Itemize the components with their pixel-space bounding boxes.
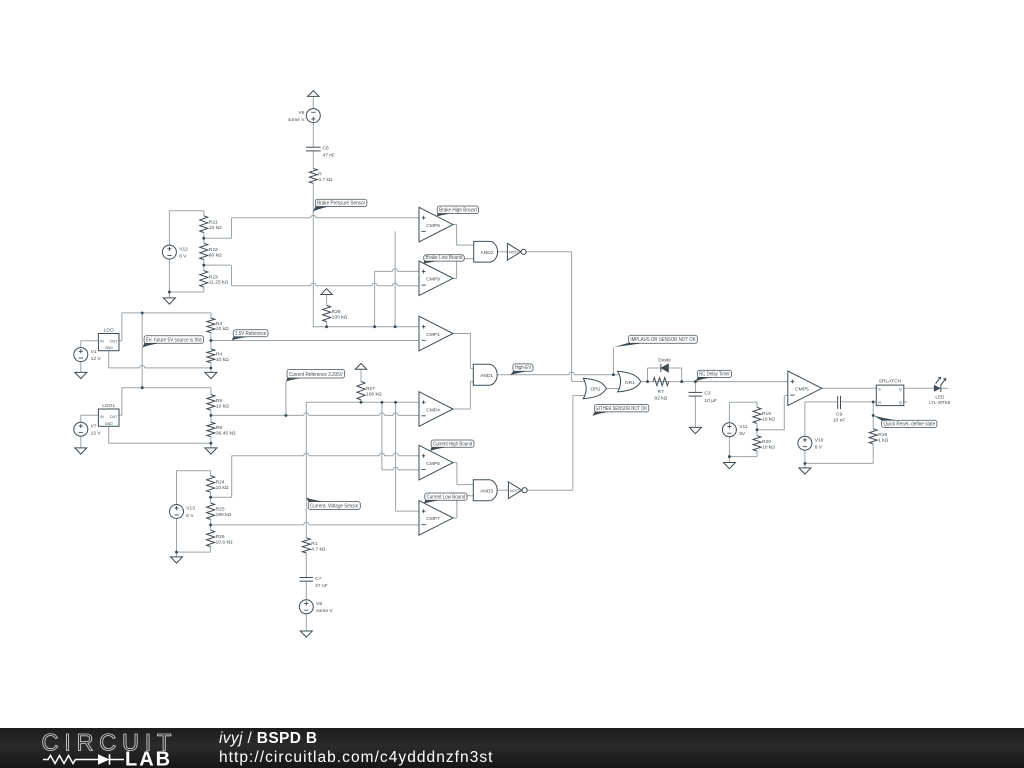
wire AND1 output High-EV bbox=[498, 374, 619, 376]
junction at 873.2,415.4 bbox=[872, 414, 875, 417]
wire hop at 313.3,217.8 bbox=[311, 215, 316, 219]
svg-text:12 V: 12 V bbox=[91, 356, 102, 362]
wire R1 to C7 bbox=[305, 553, 307, 578]
capacitor C3 bbox=[689, 391, 717, 404]
junction at 647.5,381.6 bbox=[646, 380, 649, 383]
svg-text:CMP5: CMP5 bbox=[795, 387, 809, 393]
resistor R3 bbox=[207, 318, 229, 333]
wire R26 bottom lead bbox=[210, 547, 212, 553]
svg-text:190 kΩ: 190 kΩ bbox=[216, 512, 232, 518]
node flag Brake High Bound bbox=[437, 206, 479, 217]
junction at 681.7,381.6 bbox=[680, 380, 683, 383]
svg-text:C9: C9 bbox=[836, 411, 843, 417]
svg-text:R: R bbox=[318, 171, 322, 177]
resistor R24 bbox=[207, 476, 229, 493]
wire diode branch left bbox=[647, 368, 649, 382]
wire NOT2 output bbox=[528, 489, 573, 491]
svg-text:LTL-30TEE: LTL-30TEE bbox=[929, 400, 951, 405]
comparator CMP4 bbox=[419, 392, 453, 427]
wire R9 bottom lead bbox=[210, 437, 212, 448]
wire to AND2 input A bbox=[457, 244, 474, 246]
svg-text:NOT1: NOT1 bbox=[509, 250, 519, 254]
inverter NOT2 bbox=[508, 482, 527, 499]
svg-text:LDO: LDO bbox=[104, 327, 114, 333]
resistor R22 bbox=[200, 243, 222, 259]
junction at 203.8,265.1 bbox=[202, 264, 205, 267]
svg-text:R4: R4 bbox=[216, 351, 223, 357]
wire CMP4 output bbox=[453, 408, 470, 410]
svg-text:36.45 kΩ: 36.45 kΩ bbox=[216, 430, 236, 436]
svg-text:CMP1: CMP1 bbox=[426, 332, 440, 338]
wire NOT1 output bbox=[527, 251, 572, 253]
wire R24 top lead bbox=[210, 471, 212, 476]
svg-text:Diode: Diode bbox=[658, 357, 671, 363]
wire R4 bottom lead bbox=[210, 363, 212, 373]
wire V10 bottom lead bbox=[804, 450, 806, 468]
svg-text:100 kΩ: 100 kΩ bbox=[332, 314, 348, 320]
wire R19 top lead bbox=[756, 402, 758, 407]
wire NOT1 to OR2 drop bbox=[571, 252, 573, 382]
junction at 729.4,456.6 bbox=[728, 455, 731, 458]
voltage source V12 bbox=[162, 245, 188, 259]
junction at 176.5,552.1 bbox=[175, 551, 178, 554]
wire flag to R27 bbox=[360, 369, 362, 381]
diode D bbox=[658, 357, 671, 372]
junction at 395.1,326.7 bbox=[394, 325, 397, 328]
svg-text:82 kΩ: 82 kΩ bbox=[654, 395, 667, 401]
resistor R7 bbox=[653, 378, 669, 402]
voltage source V10 bbox=[798, 436, 824, 450]
voltage source V11 bbox=[722, 423, 747, 437]
wire R3-R4 link bbox=[210, 333, 212, 349]
svg-text:V8: V8 bbox=[316, 601, 322, 607]
svg-text:LDO1: LDO1 bbox=[102, 403, 115, 409]
wire R8 top lead bbox=[210, 388, 212, 395]
svg-text:10 kΩ: 10 kΩ bbox=[216, 326, 229, 332]
svg-text:High-EV: High-EV bbox=[515, 365, 532, 371]
svg-text:CMP7: CMP7 bbox=[426, 516, 440, 522]
svg-text:OUT: OUT bbox=[110, 415, 118, 419]
junction at 210.9,443.2 bbox=[209, 442, 212, 445]
svg-text:IN: IN bbox=[100, 415, 104, 419]
and gate AND1 bbox=[473, 364, 497, 385]
wire R22-R23 tap bbox=[204, 264, 232, 266]
wire OR1 output to R7 bbox=[641, 381, 696, 383]
svg-text:some V: some V bbox=[316, 608, 333, 614]
svg-text:Current Low Bound: Current Low Bound bbox=[427, 494, 466, 500]
wire SRLATCH Q to LED bbox=[904, 387, 934, 389]
power flag top bbox=[308, 91, 319, 97]
wire OR2 to OR1 bbox=[606, 388, 622, 390]
wire CMP4 out rise bbox=[469, 382, 471, 409]
svg-text:R20: R20 bbox=[762, 439, 771, 445]
capacitor C6 bbox=[306, 145, 335, 158]
sr latch SRLATCH bbox=[876, 379, 904, 406]
wire V6 to C6 bbox=[312, 123, 314, 148]
and gate AND2 bbox=[474, 241, 498, 262]
wire LDO GND pin bbox=[108, 351, 110, 368]
resistor R26 bbox=[207, 530, 233, 546]
wire R19-R20 link bbox=[756, 423, 758, 435]
capacitor C9 bbox=[833, 396, 846, 424]
resistor R4 bbox=[207, 349, 229, 363]
wire sensor to CMP9+ bbox=[375, 270, 419, 272]
svg-text:Current Reference 3.205V: Current Reference 3.205V bbox=[289, 372, 344, 378]
wire current sensor rail bbox=[306, 401, 419, 403]
node flag Current Voltage Sensor bbox=[306, 497, 360, 509]
junction at 169.4,292 bbox=[168, 291, 171, 294]
svg-text:OUT: OUT bbox=[110, 340, 118, 344]
svg-text:2.5V Reference: 2.5V Reference bbox=[235, 331, 266, 337]
wire V13 bottom bbox=[177, 551, 211, 553]
wire to AND1 input B bbox=[470, 381, 473, 383]
svg-text:R3: R3 bbox=[216, 321, 223, 327]
wire R3 top lead bbox=[210, 313, 212, 318]
wire CMP5- stub bbox=[784, 395, 788, 397]
wire hop at 381.9,415.4 bbox=[379, 413, 384, 417]
wire riser to CMP5- bbox=[783, 396, 785, 430]
resistor R19 bbox=[753, 407, 775, 423]
svg-text:Brake High Bound: Brake High Bound bbox=[439, 208, 477, 214]
power flag R27 bbox=[355, 364, 366, 370]
wire tap riser to CMP6+ bbox=[231, 456, 233, 498]
junction at 142.2,387.7 bbox=[141, 386, 144, 389]
junction at 210.9,340.5 bbox=[209, 339, 212, 342]
wire to OR2 input A bbox=[572, 380, 589, 382]
wire LDO1 GND return bbox=[109, 442, 211, 444]
node flag Current High Bound bbox=[430, 440, 474, 451]
ground below C3 bbox=[689, 427, 701, 433]
resistor R18 bbox=[869, 429, 889, 444]
wire flag to R28 bbox=[326, 295, 328, 306]
svg-text:10 kΩ: 10 kΩ bbox=[216, 485, 229, 491]
svg-text:Brake Pressure Sensor: Brake Pressure Sensor bbox=[317, 201, 365, 207]
svg-text:10 kΩ: 10 kΩ bbox=[762, 444, 775, 450]
ground below V11 bbox=[723, 463, 735, 469]
wire CMP1 output bbox=[453, 333, 470, 335]
wire V7 bottom lead bbox=[80, 436, 82, 448]
voltage source V7 bbox=[74, 422, 102, 436]
wire SRLATCH Qbar stub bbox=[904, 401, 908, 403]
junction at 381.9,402.3 bbox=[380, 401, 383, 404]
svg-text:R9: R9 bbox=[216, 425, 223, 431]
wire R23 bottom lead bbox=[203, 287, 205, 292]
wire hop at 306.3,524.9 bbox=[304, 522, 309, 526]
wire CMP1 out drop bbox=[469, 334, 471, 369]
node flag EITHER SENSOR NOT OK bbox=[593, 405, 649, 416]
svg-text:V10: V10 bbox=[815, 437, 824, 443]
wire R24-R25 link bbox=[210, 492, 212, 503]
wire R20 bottom lead bbox=[756, 451, 758, 457]
svg-text:NOT2: NOT2 bbox=[510, 489, 520, 493]
wire diode branch right bbox=[681, 368, 683, 382]
wire current reference to CMP4- bbox=[211, 414, 419, 416]
svg-text:100 kΩ: 100 kΩ bbox=[366, 392, 382, 398]
resistor R27 bbox=[357, 382, 382, 400]
wire current sensor drop bbox=[305, 402, 307, 538]
svg-text:1 kΩ: 1 kΩ bbox=[878, 437, 889, 443]
svg-text:5V- future 5V source is this: 5V- future 5V source is this bbox=[146, 337, 202, 343]
node flag IMPLAUS OR SENSOR NOT OK bbox=[614, 335, 698, 347]
svg-text:CMP8: CMP8 bbox=[426, 223, 440, 229]
svg-text:6 V: 6 V bbox=[179, 254, 187, 260]
wire CMP6 out drop bbox=[456, 463, 458, 485]
wire R22-R23 link bbox=[203, 260, 205, 271]
wire current low bound to CMP7- bbox=[211, 524, 419, 526]
junction at 757,429.8 bbox=[756, 428, 759, 431]
svg-text:R1: R1 bbox=[311, 541, 318, 547]
wire tap riser to CMP8+ bbox=[231, 218, 233, 238]
wire LDO1 OUT riser bbox=[121, 388, 123, 416]
wire CMP5 out to SRLATCH S bbox=[822, 387, 877, 389]
svg-text:CMP6: CMP6 bbox=[426, 461, 440, 467]
resistor R9 bbox=[207, 422, 236, 437]
svg-text:R22: R22 bbox=[209, 247, 218, 253]
svg-text:R19: R19 bbox=[762, 411, 771, 417]
svg-text:R7: R7 bbox=[658, 389, 665, 395]
wire C3 to ground bbox=[694, 396, 696, 427]
resistor R20 bbox=[753, 436, 775, 451]
junction at 695.4,381.6 bbox=[694, 380, 697, 383]
junction at 210.9,415.4 bbox=[209, 414, 212, 417]
node flag 5V future source bbox=[142, 336, 203, 348]
LDO regulator bbox=[98, 327, 119, 350]
wire CMP8 out drop bbox=[456, 225, 458, 246]
svg-text:LAB: LAB bbox=[125, 749, 172, 768]
voltage source V13 bbox=[170, 505, 196, 519]
svg-text:EITHER SENSOR NOT OK: EITHER SENSOR NOT OK bbox=[596, 406, 647, 412]
svg-text:4.7 kΩ: 4.7 kΩ bbox=[318, 177, 333, 183]
wire V12 top bbox=[169, 210, 203, 212]
wire 2.5V reference to CMP1- bbox=[211, 340, 419, 342]
wire V7 to LDO1 IN bbox=[81, 414, 99, 416]
svg-text:Q: Q bbox=[899, 387, 902, 391]
svg-text:R8: R8 bbox=[216, 398, 223, 404]
or gate OR2 bbox=[583, 378, 606, 399]
svg-text:V13: V13 bbox=[186, 506, 195, 512]
wire hop at 374.6,285.7 bbox=[372, 283, 377, 287]
LDO1 regulator bbox=[98, 403, 119, 426]
led LED LTL-30TEE bbox=[929, 377, 951, 405]
wire AND3 to NOT2 bbox=[497, 489, 508, 491]
wire to CMP6- bbox=[382, 469, 419, 471]
svg-text:R: R bbox=[878, 401, 881, 405]
svg-text:11.25 kΩ: 11.25 kΩ bbox=[209, 280, 229, 286]
node flag Quick Reset define state bbox=[874, 416, 937, 428]
wire diode branch top bbox=[648, 367, 682, 369]
and gate AND3 bbox=[473, 480, 497, 501]
wire AND2 to NOT1 bbox=[498, 251, 508, 253]
svg-text:R21: R21 bbox=[209, 220, 218, 226]
wire V1 top lead bbox=[80, 341, 82, 348]
wire current reference label stub bbox=[285, 382, 287, 416]
wire CMP6 output bbox=[453, 462, 457, 464]
comparator CMP6 bbox=[419, 445, 453, 480]
capacitor C7 bbox=[300, 576, 328, 589]
svg-text:some V: some V bbox=[288, 117, 305, 123]
power flag R28 bbox=[321, 289, 332, 295]
svg-text:10 nF: 10 nF bbox=[833, 418, 846, 424]
wire V11 bottom lead bbox=[728, 437, 730, 463]
wire to OR2 input B bbox=[573, 395, 588, 397]
wire IMPLAUS label stub bbox=[612, 347, 614, 374]
wire V12 bottom lead bbox=[168, 259, 170, 298]
wire V11 to R19 top bbox=[729, 401, 757, 403]
svg-text:SRLATCH: SRLATCH bbox=[879, 379, 902, 385]
wire LDO OUT stub bbox=[119, 340, 122, 342]
wire to CMP7+ bbox=[396, 510, 419, 512]
svg-text:C6: C6 bbox=[323, 145, 330, 151]
svg-text:12 V: 12 V bbox=[91, 431, 102, 437]
wire RC node to CMP5+ bbox=[695, 381, 787, 383]
svg-text:IMPLAUS OR SENSOR NOT OK: IMPLAUS OR SENSOR NOT OK bbox=[630, 337, 696, 343]
junction at 804.9,463.4 bbox=[803, 462, 806, 465]
ground below V8 bbox=[300, 631, 312, 637]
comparator CMP5 bbox=[788, 371, 822, 406]
node flag Current Reference bbox=[286, 370, 345, 382]
wire R27 bottom lead bbox=[360, 400, 362, 402]
resistor R28 bbox=[323, 305, 348, 321]
wire R21 top lead bbox=[203, 211, 205, 216]
wire power flag to V6 bbox=[312, 96, 314, 108]
or gate OR1 bbox=[618, 371, 641, 392]
junction at 210.9,367.9 bbox=[209, 366, 212, 369]
junction at 203.8,238.2 bbox=[202, 237, 205, 240]
comparator CMP1 bbox=[419, 316, 453, 351]
wire LDO OUT riser bbox=[121, 313, 123, 341]
wire brake high bound to CMP8+ bbox=[232, 217, 420, 219]
wire LDO1 out rail bbox=[122, 387, 211, 389]
svg-text:C3: C3 bbox=[704, 391, 711, 397]
wire dropper to CMP6- bbox=[381, 402, 383, 470]
ground below V10 bbox=[799, 468, 811, 474]
footer bar bbox=[0, 728, 1024, 768]
svg-text:6 V: 6 V bbox=[186, 513, 194, 519]
inverter NOT1 bbox=[507, 243, 526, 260]
wire CMP7 output bbox=[453, 517, 457, 519]
svg-text:10 kΩ: 10 kΩ bbox=[209, 225, 222, 231]
junction at 361,402.3 bbox=[360, 401, 363, 404]
wire R21-R22 link bbox=[203, 233, 205, 244]
wire R19-R20 tap bbox=[757, 429, 784, 431]
wire V13 top bbox=[177, 470, 211, 472]
wire to AND3 input A bbox=[457, 484, 473, 486]
wire V12 top lead bbox=[168, 211, 170, 245]
svg-text:GND: GND bbox=[105, 346, 113, 350]
svg-text:GND: GND bbox=[105, 422, 113, 426]
wire LDO1 GND pin bbox=[108, 426, 110, 443]
svg-text:47 nF: 47 nF bbox=[315, 583, 328, 589]
wire tap dropper to CMP9- bbox=[231, 265, 233, 286]
ground below R4 bbox=[205, 372, 217, 378]
svg-text:10 kΩ: 10 kΩ bbox=[216, 357, 229, 363]
svg-text:Current- Voltage Sensor: Current- Voltage Sensor bbox=[310, 503, 359, 509]
wire SRLATCH R to R18 bbox=[872, 402, 874, 429]
svg-text:R23: R23 bbox=[209, 274, 218, 280]
svg-text:AND3: AND3 bbox=[480, 488, 493, 494]
wire hop at 306.3,455.7 bbox=[304, 453, 309, 457]
ground below R9 bbox=[205, 448, 217, 454]
svg-text:R28: R28 bbox=[332, 309, 341, 315]
node flag Brake Low Bound bbox=[423, 255, 464, 264]
svg-text:R25: R25 bbox=[216, 507, 225, 513]
svg-text:Brake Low Bound: Brake Low Bound bbox=[426, 255, 463, 261]
junction at 613.4,374.7 bbox=[612, 373, 615, 376]
resistor R bbox=[309, 169, 333, 184]
svg-text:10 kΩ: 10 kΩ bbox=[762, 416, 775, 422]
wire C7 to V8 bbox=[305, 581, 307, 600]
wire dropper to CMP7+ bbox=[395, 402, 397, 511]
wire to AND2 input B bbox=[457, 258, 474, 260]
junction at 374.6,326.7 bbox=[373, 325, 376, 328]
wire hop at 395.1,285.7 bbox=[393, 283, 398, 287]
wire hop at 571.6,374.7 bbox=[569, 372, 574, 376]
wire R25-R26 link bbox=[210, 519, 212, 530]
junction at 395.6,402.3 bbox=[394, 401, 397, 404]
ground below V1 bbox=[75, 372, 87, 378]
resistor R1 bbox=[302, 538, 326, 553]
node flag High-EV bbox=[510, 364, 533, 375]
wire CMP7 out rise bbox=[456, 496, 458, 518]
comparator CMP8 bbox=[419, 207, 453, 242]
junction at 142.2,312.9 bbox=[141, 311, 144, 314]
wire V13 top lead bbox=[176, 471, 178, 505]
wire V8 to ground bbox=[305, 614, 307, 631]
svg-text:V1: V1 bbox=[91, 349, 97, 355]
svg-text:10.6 kΩ: 10.6 kΩ bbox=[216, 539, 233, 545]
wire C9 to SRLATCH R bbox=[805, 401, 876, 403]
circuitlab logo bbox=[20, 728, 220, 768]
wire CMP9 out rise bbox=[456, 259, 458, 279]
wire CMP8 output bbox=[453, 224, 457, 226]
svg-text:5V: 5V bbox=[739, 431, 746, 437]
svg-text:R18: R18 bbox=[878, 432, 887, 438]
wire hop at 395.6,469.9 bbox=[393, 467, 398, 471]
resistor R8 bbox=[207, 395, 229, 411]
wire to AND3 input B bbox=[457, 495, 473, 497]
svg-text:OR2: OR2 bbox=[590, 387, 600, 393]
node flag Brake Pressure Sensor bbox=[313, 199, 367, 212]
ground below V7 bbox=[75, 448, 87, 454]
comparator CMP9 bbox=[419, 261, 453, 296]
svg-text:CMP9: CMP9 bbox=[426, 277, 440, 283]
svg-text:C7: C7 bbox=[315, 576, 322, 582]
svg-text:10 µF: 10 µF bbox=[704, 398, 717, 404]
wire to AND1 input A bbox=[470, 367, 473, 369]
voltage source V8 bbox=[299, 600, 333, 614]
svg-text:Current High Bound: Current High Bound bbox=[433, 441, 473, 447]
wire R24-R25 tap bbox=[211, 496, 232, 498]
resistor R21 bbox=[200, 216, 222, 233]
svg-text:Quick Reset- define state: Quick Reset- define state bbox=[883, 421, 935, 427]
voltage source V6 bbox=[288, 109, 320, 123]
wire riser to CMP8- bbox=[394, 231, 396, 326]
svg-text:R26: R26 bbox=[216, 534, 225, 540]
junction at 326.6,326.7 bbox=[325, 325, 328, 328]
wire V11 top lead bbox=[728, 402, 730, 423]
svg-text:R27: R27 bbox=[366, 386, 375, 392]
wire C6 to R bbox=[312, 151, 314, 169]
wire node to C3 bbox=[694, 382, 696, 393]
svg-text:OR1: OR1 bbox=[625, 380, 635, 386]
wire V1 bottom lead bbox=[80, 362, 82, 373]
wire R18 bottom lead bbox=[872, 444, 874, 464]
comparator CMP7 bbox=[419, 501, 453, 536]
wire 5V branch drop bbox=[141, 313, 143, 388]
wire V12 bottom bbox=[169, 291, 203, 293]
wire V7 top lead bbox=[80, 415, 82, 422]
svg-text:AND2: AND2 bbox=[481, 250, 494, 256]
